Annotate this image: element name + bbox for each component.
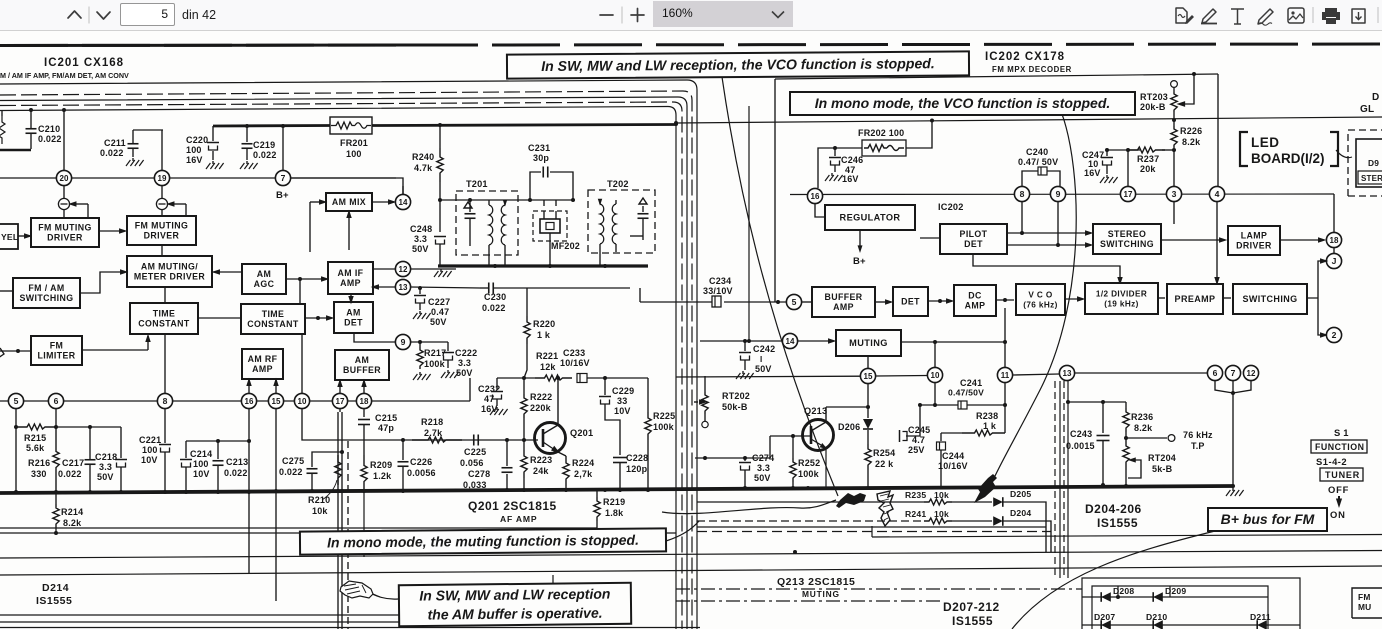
pin 15 (IC202) <box>860 368 875 383</box>
resistor R226 8.2k <box>1171 118 1203 152</box>
svg-text:50k-B: 50k-B <box>722 402 748 412</box>
svg-text:S 1: S 1 <box>1334 427 1349 438</box>
wire diode matrix box <box>1082 578 1300 629</box>
svg-text:16: 16 <box>811 192 820 201</box>
pin 20 <box>56 170 71 185</box>
leader to AM buffer callout <box>372 594 398 599</box>
svg-text:C242: C242 <box>753 344 775 354</box>
resistor R210 zigzag <box>335 455 341 485</box>
block AM MUTING/METER DRIVER <box>127 256 212 287</box>
diode D205 <box>952 489 1046 552</box>
resistor R254 22k <box>865 444 896 486</box>
block BUFFER AMP <box>812 287 875 317</box>
svg-text:AGC: AGC <box>254 279 275 289</box>
wire AM MIX bottom feed <box>346 210 351 250</box>
svg-text:D208: D208 <box>1113 586 1134 596</box>
svg-text:CONSTANT: CONSTANT <box>138 319 190 329</box>
svg-text:30p: 30p <box>533 153 549 163</box>
wire dcamp to vco <box>996 298 1014 302</box>
svg-text:In SW, MW and LW reception, th: In SW, MW and LW reception, the VCO func… <box>541 55 935 74</box>
wire row y376 <box>676 376 927 378</box>
wire pin7 to B+ rail <box>282 126 284 170</box>
block TIME CONSTANT (left) <box>130 303 198 334</box>
pin 9 (IC202) <box>1050 186 1065 201</box>
svg-text:0.056: 0.056 <box>460 458 484 468</box>
pin 10 (IC202) <box>927 367 942 382</box>
wire pin row IC202 top <box>790 193 1334 196</box>
svg-text:25V: 25V <box>908 445 925 455</box>
wire FR202 to pin16 <box>818 148 835 188</box>
capacitor C240 0.47/50V <box>1018 147 1060 186</box>
pin 11 (IC202) <box>997 367 1012 382</box>
svg-text:1.2k: 1.2k <box>373 471 392 481</box>
pin 8 (IC202) <box>1014 186 1029 201</box>
wire pin18 chain <box>1333 194 1335 253</box>
capacitor C222 3.3/50V <box>442 342 477 378</box>
callout: In SW MW LW VCO stopped <box>507 51 969 78</box>
svg-text:R241: R241 <box>905 509 926 519</box>
toolbar icon: previous page chevron <box>68 11 81 18</box>
wire row 13 to 6 <box>1013 373 1207 375</box>
svg-text:C245: C245 <box>908 425 930 435</box>
svg-text:18: 18 <box>1330 236 1339 245</box>
label D214 IS1555 <box>36 582 72 607</box>
capacitor C214 100/10V <box>180 441 212 492</box>
wire arrow into minus node <box>68 201 88 217</box>
wire regulator B+ out <box>853 230 866 267</box>
block FM MUTING DRIVER (right) <box>127 216 196 245</box>
svg-text:C278: C278 <box>468 469 490 479</box>
svg-text:C233: C233 <box>563 348 585 358</box>
wire pin4 down to preamp <box>1214 202 1219 285</box>
svg-text:5k-B: 5k-B <box>1152 464 1173 474</box>
svg-text:C240: C240 <box>1026 147 1048 157</box>
svg-text:14: 14 <box>399 198 408 207</box>
wire lower horizontal c <box>0 566 1382 575</box>
toolbar icon: next page chevron <box>97 12 110 19</box>
block YEL <box>0 224 18 249</box>
svg-text:330: 330 <box>31 469 47 479</box>
svg-text:GL: GL <box>1360 104 1374 115</box>
svg-text:(76 kHz): (76 kHz) <box>1023 301 1058 310</box>
wire meter driver to TC <box>164 287 166 303</box>
wire switching fork to J and 2 <box>1307 258 1328 337</box>
svg-text:Q213 2SC1815: Q213 2SC1815 <box>777 576 855 588</box>
svg-text:120p: 120p <box>626 464 648 474</box>
svg-text:ON: ON <box>1330 509 1346 520</box>
cursor mark (black arrow left) <box>836 493 866 508</box>
wire FM muting to meter driver <box>161 245 163 256</box>
cursor mark (black arrow right) <box>974 474 997 503</box>
resistor R215 5.6k <box>16 424 58 453</box>
svg-text:RT203: RT203 <box>1140 92 1168 102</box>
capacitor C229 33/10V <box>599 378 634 455</box>
svg-text:47p: 47p <box>378 423 394 433</box>
freehand wavy line to cursor <box>662 500 836 514</box>
svg-text:SWITCHING: SWITCHING <box>1100 239 1154 249</box>
capacitor C248 3.3/50V <box>410 224 446 266</box>
svg-text:D206: D206 <box>838 422 860 432</box>
wire pins 10-11 loop <box>920 383 1007 407</box>
ceramic filter MF202 <box>533 200 580 266</box>
ground (C211) <box>126 158 144 166</box>
svg-text:9: 9 <box>1056 189 1061 199</box>
wire dashed vertical (AM bus) <box>347 441 349 629</box>
svg-text:FM MUTING: FM MUTING <box>135 221 188 231</box>
ground (C246) <box>825 173 843 181</box>
svg-text:3.3: 3.3 <box>458 358 471 368</box>
leader from muting callout <box>666 521 699 541</box>
capacitor C231 30p <box>528 143 573 200</box>
wire arrow into plus node <box>166 201 186 215</box>
svg-text:METER DRIVER: METER DRIVER <box>134 272 206 282</box>
svg-text:BUFFER: BUFFER <box>343 365 381 375</box>
wire YEL to FM muting driver <box>18 233 32 238</box>
block MUTING <box>836 330 901 356</box>
svg-text:50V: 50V <box>754 473 771 483</box>
block REGULATOR <box>825 205 915 230</box>
pin 5 (IC201) <box>8 393 23 408</box>
svg-text:4: 4 <box>1215 189 1220 199</box>
wire pin9 right <box>411 340 448 344</box>
label IC202 <box>938 202 964 212</box>
ground (C247) <box>1100 175 1118 183</box>
wire pin18 line below bus <box>363 492 365 557</box>
svg-text:3: 3 <box>1172 189 1177 199</box>
resistor R222 220k <box>521 378 553 440</box>
resistor R221 12k <box>535 351 572 381</box>
wire pin8 down <box>1020 202 1024 235</box>
svg-text:2: 2 <box>1332 330 1337 340</box>
pin 14 (IC202) <box>782 333 797 348</box>
wire stub y537 <box>872 526 1382 537</box>
node plus <box>156 186 167 215</box>
svg-text:MU: MU <box>1358 602 1371 612</box>
svg-text:100: 100 <box>142 445 158 455</box>
resistor R209 1.2k <box>361 455 393 492</box>
resistor R235 10k <box>905 490 952 505</box>
capacitor C230 0.022 <box>403 283 630 314</box>
wire R220 to node <box>524 360 527 378</box>
svg-text:CONSTANT: CONSTANT <box>247 319 299 329</box>
ground (tank bus) <box>434 269 452 277</box>
pin 7 (IC202) <box>1225 365 1240 380</box>
svg-text:T202: T202 <box>607 179 629 189</box>
svg-text:1/2 DIVIDER: 1/2 DIVIDER <box>1096 290 1147 299</box>
svg-text:C218: C218 <box>95 452 117 462</box>
svg-text:FUNCTION: FUNCTION <box>1315 442 1364 452</box>
resistor R241 10k <box>905 509 952 524</box>
svg-text:0.0015: 0.0015 <box>1066 441 1095 451</box>
svg-text:C274: C274 <box>752 453 774 463</box>
block DET <box>893 287 928 316</box>
svg-text:C226: C226 <box>410 457 432 467</box>
resistor (left edge, partial) <box>0 110 5 144</box>
block AM BUFFER <box>335 350 389 380</box>
dashed box (LED board right) <box>1348 130 1382 196</box>
svg-text:10k: 10k <box>934 509 949 519</box>
block VCO 76kHz <box>1016 284 1065 315</box>
pin 14 (IC201) <box>395 194 410 209</box>
svg-text:C210: C210 <box>38 124 60 134</box>
svg-text:10/16V: 10/16V <box>938 461 968 471</box>
ground (C222) <box>441 370 459 378</box>
pin 12 (IC202) <box>1243 365 1258 380</box>
svg-text:17: 17 <box>336 397 345 406</box>
wire muting dash-dot row <box>676 588 1082 590</box>
callout: In mono muting stopped <box>300 528 666 554</box>
pin 7 <box>275 170 290 201</box>
svg-text:12: 12 <box>1247 369 1256 378</box>
wire C233 node to right <box>603 376 648 380</box>
svg-text:100k: 100k <box>424 359 446 369</box>
svg-text:5: 5 <box>14 396 19 406</box>
pin 17 (IC202) <box>1120 186 1135 201</box>
wire pin16 to regulator <box>815 204 825 217</box>
callout: B+ bus for FM <box>1208 508 1327 531</box>
svg-text:220k: 220k <box>530 403 552 413</box>
wire R237 to pin17 <box>1127 150 1129 186</box>
svg-text:R220: R220 <box>533 319 555 329</box>
svg-text:LAMP: LAMP <box>1241 231 1268 241</box>
fusible resistor FR201 <box>330 117 372 159</box>
block AM AGC <box>242 264 286 294</box>
svg-text:DET: DET <box>344 318 363 328</box>
svg-text:12k: 12k <box>540 362 556 372</box>
capacitor C221 100/10V <box>139 409 171 492</box>
svg-text:R225: R225 <box>653 411 675 421</box>
svg-text:R226: R226 <box>1180 126 1202 136</box>
pin 8 (IC201) <box>157 393 172 408</box>
pin 6 (IC202) <box>1207 365 1222 380</box>
svg-text:50V: 50V <box>412 244 429 254</box>
svg-text:50V: 50V <box>97 472 114 482</box>
capacitor C213 0.022 <box>213 441 249 492</box>
capacitor C217 0.022 <box>58 427 96 492</box>
svg-text:8.2k: 8.2k <box>1182 137 1201 147</box>
svg-text:100: 100 <box>186 145 202 155</box>
wire dash-dot row 2 <box>676 600 940 602</box>
svg-text:PREAMP: PREAMP <box>1175 294 1216 304</box>
svg-text:C232: C232 <box>478 384 500 394</box>
svg-text:R235: R235 <box>905 490 926 500</box>
svg-text:AM MUTING/: AM MUTING/ <box>141 262 198 272</box>
svg-text:SWITCHING: SWITCHING <box>1242 294 1297 304</box>
svg-text:16: 16 <box>245 397 254 406</box>
transistor Q201 2SC1815 <box>535 378 594 456</box>
resistor R225 100k <box>645 378 676 490</box>
svg-text:0.022: 0.022 <box>279 467 303 477</box>
wire AM IF AMP to AM DET <box>348 294 353 304</box>
wire buffer to det <box>875 299 893 304</box>
potentiometer RT202 50k-B <box>694 376 750 428</box>
svg-text:AM: AM <box>346 308 360 318</box>
wire row R241 (dashed) <box>697 520 924 522</box>
svg-text:17: 17 <box>1124 190 1133 199</box>
wire AM DET to pin9 <box>354 333 395 342</box>
wire pin13 into AM IF AMP <box>371 284 395 289</box>
svg-text:AMP: AMP <box>252 364 273 374</box>
label D204-206 IS1555 <box>1085 502 1142 530</box>
leader curve (mono VCO callout to D205) <box>994 114 1076 478</box>
pin 19 <box>154 170 169 185</box>
svg-text:D204: D204 <box>1010 508 1031 518</box>
svg-text:T.P: T.P <box>1191 441 1205 451</box>
svg-text:33/10V: 33/10V <box>703 286 733 296</box>
svg-text:7: 7 <box>1231 368 1236 378</box>
resistor R236 8.2k <box>1123 402 1154 440</box>
capacitor C219 <box>242 126 277 160</box>
label GL (right edge) <box>1360 92 1379 115</box>
svg-text:C228: C228 <box>626 453 648 463</box>
svg-text:C221: C221 <box>139 435 161 445</box>
wire pilot det out lower <box>1007 242 1093 247</box>
svg-text:C227: C227 <box>428 297 450 307</box>
pin 16 (IC201) <box>241 393 256 408</box>
wire pin7 row to pin14 <box>291 178 403 194</box>
wire pin14 to muting <box>798 338 836 343</box>
svg-text:TIME: TIME <box>262 309 285 319</box>
capacitor C246 47/16V <box>829 148 863 184</box>
block PREAMP <box>1167 284 1223 314</box>
transistor Q213 2SC1815 <box>803 406 834 487</box>
svg-text:I: I <box>760 355 762 364</box>
ground (C232) <box>490 407 508 415</box>
ground (C219) <box>240 161 258 169</box>
svg-text:C217: C217 <box>62 458 84 468</box>
svg-text:FM: FM <box>50 341 64 351</box>
wire upper-right horizontal <box>775 72 1218 302</box>
node minus (muting polarity) <box>58 186 69 217</box>
svg-text:PILOT: PILOT <box>960 229 988 239</box>
svg-text:0.022: 0.022 <box>253 150 277 160</box>
svg-text:AM IF: AM IF <box>338 268 364 278</box>
toolbar icon: zoom out minus <box>600 14 613 16</box>
transformer T202 <box>588 179 655 288</box>
capacitor C234 33/10V <box>703 276 733 307</box>
pin 17 (IC201) <box>332 393 347 408</box>
callout: In SW AM buffer operative <box>399 583 631 626</box>
resistor R223 24k <box>521 440 553 492</box>
svg-text:6: 6 <box>1213 368 1218 378</box>
resistor R214 8.2k <box>53 492 84 535</box>
svg-text:DRIVER: DRIVER <box>144 231 180 241</box>
svg-text:3.3: 3.3 <box>99 462 112 472</box>
svg-text:MF202: MF202 <box>551 241 580 251</box>
label Q201 2SC1815 <box>468 499 557 524</box>
scribble arrow mark <box>877 491 893 526</box>
pin 9 (IC201) <box>395 334 410 349</box>
leader curve (In SW callout to Q213) <box>722 77 838 496</box>
pin J (LED board) <box>1326 253 1341 268</box>
svg-text:AF AMP: AF AMP <box>500 514 537 524</box>
capacitor C218 3.3/50V <box>95 427 127 492</box>
block AM IF AMP <box>328 262 373 294</box>
capacitor C232 47/16V <box>478 378 503 414</box>
resistor R216 330 <box>28 427 59 492</box>
svg-text:50V: 50V <box>430 317 447 327</box>
wire pin17 pair down <box>338 409 342 629</box>
wire lower horizontal a <box>0 532 676 534</box>
pin 18 (IC201) <box>356 393 371 408</box>
svg-text:BOARD(I/2): BOARD(I/2) <box>1251 151 1325 166</box>
capacitor C244 10/16V <box>937 433 968 486</box>
svg-text:1.8k: 1.8k <box>605 508 624 518</box>
svg-text:LED: LED <box>1251 135 1280 150</box>
svg-text:100: 100 <box>193 459 209 469</box>
svg-text:R223: R223 <box>530 455 552 465</box>
wire pins to AM BUFFER <box>337 379 366 393</box>
pin 18 (LED board) <box>1326 232 1341 247</box>
svg-text:FM / AM: FM / AM <box>28 283 64 293</box>
fusible resistor FR202 <box>833 121 932 156</box>
svg-text:0.47/ 50V: 0.47/ 50V <box>1018 157 1058 167</box>
wire node y441 <box>186 439 249 443</box>
svg-text:2,7k: 2,7k <box>574 469 593 479</box>
svg-text:AM MIX: AM MIX <box>332 197 366 207</box>
svg-text:In mono mode, the muting funct: In mono mode, the muting function is sto… <box>327 532 639 551</box>
block 1/2 DIVIDER <box>1085 283 1158 314</box>
svg-text:3.3: 3.3 <box>757 463 770 473</box>
ground (main bus right) <box>1226 488 1244 496</box>
wire pin12 left <box>372 268 395 270</box>
svg-text:TIME: TIME <box>153 309 176 319</box>
wire main bus (thick) <box>0 486 1233 493</box>
svg-text:C211: C211 <box>104 138 126 148</box>
svg-text:C234: C234 <box>709 276 731 286</box>
svg-text:D214: D214 <box>42 582 69 594</box>
svg-text:10k: 10k <box>934 490 949 500</box>
wire lower horizontal b <box>0 550 1382 558</box>
svg-text:FR202 100: FR202 100 <box>858 128 904 138</box>
svg-text:(19 kHz): (19 kHz) <box>1104 300 1139 309</box>
pin 3 (IC202) <box>1166 186 1181 201</box>
wire R226 to pin3 <box>1173 150 1175 186</box>
pin 5 (IC202) <box>786 294 801 309</box>
svg-text:OFF: OFF <box>1328 484 1349 495</box>
capacitor C245 4.7/25V <box>900 425 931 455</box>
diode D210 <box>1146 612 1167 629</box>
svg-text:8.2k: 8.2k <box>1134 423 1153 433</box>
svg-text:D211: D211 <box>1250 612 1271 622</box>
ground (C220) <box>206 161 224 169</box>
svg-text:47: 47 <box>484 394 494 404</box>
svg-text:19: 19 <box>158 174 167 183</box>
svg-text:D209: D209 <box>1165 586 1186 596</box>
wire pins to AM RF AMP <box>246 378 278 393</box>
svg-text:7: 7 <box>281 173 286 183</box>
capacitor C220 100/16V <box>186 126 219 165</box>
capacitor C211 <box>100 130 163 158</box>
svg-text:AM RF: AM RF <box>248 354 278 364</box>
svg-text:13: 13 <box>1063 369 1072 378</box>
svg-text:B+: B+ <box>853 256 866 267</box>
leader curve B+ bus <box>1012 531 1215 629</box>
svg-text:R222: R222 <box>530 392 552 402</box>
capacitor C275 0.022 <box>279 450 344 492</box>
svg-text:RT204: RT204 <box>1148 453 1176 463</box>
svg-text:C229: C229 <box>612 386 634 396</box>
svg-text:6: 6 <box>54 396 59 406</box>
svg-text:C219: C219 <box>253 140 275 150</box>
wire base line y440 <box>308 438 538 442</box>
svg-text:10V: 10V <box>141 455 158 465</box>
resistor R220 1k <box>524 288 556 360</box>
svg-text:STEREO: STEREO <box>1108 229 1147 239</box>
svg-text:R215: R215 <box>24 433 46 443</box>
pin 13 (IC202) <box>1059 365 1074 380</box>
svg-text:STER: STER <box>1361 174 1382 183</box>
